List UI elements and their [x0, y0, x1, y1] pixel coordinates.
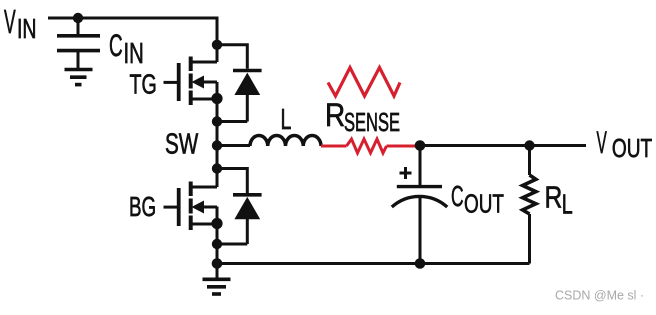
svg-text:IN: IN — [17, 14, 37, 45]
wire bottom rail — [217, 262, 530, 265]
junction TG source — [211, 93, 222, 104]
transistor Q2 BG (N-MOSFET) — [164, 182, 218, 231]
resistor RSENSE (red, in line) — [321, 139, 417, 153]
junction COUT bottom — [415, 258, 426, 269]
resistor RSENSE red zigzag icon — [328, 68, 400, 97]
wire main vertical (BG body to ground) — [216, 207, 219, 264]
resistor RL label — [545, 180, 573, 220]
resistor RSENSE label — [325, 98, 400, 137]
junction RL top — [524, 140, 534, 150]
svg-text:V: V — [597, 125, 608, 161]
diode D1 (TG body diode) — [217, 45, 262, 122]
junction ground node — [212, 258, 223, 269]
svg-text:L: L — [562, 189, 573, 220]
wire main vertical branch (VIN corner to TG drain) — [216, 18, 218, 62]
svg-text:IN: IN — [124, 38, 144, 70]
wire VIN top rail — [48, 17, 217, 20]
svg-text:OUT: OUT — [464, 188, 504, 218]
wire main vertical (TG body to BG drain) — [216, 82, 219, 187]
wire output rail — [417, 144, 586, 147]
svg-text:SENSE: SENSE — [344, 107, 400, 137]
svg-text:BG: BG — [129, 191, 156, 221]
svg-text:CSDN @Me sl ·: CSDN @Me sl · — [555, 289, 644, 303]
svg-text:R: R — [325, 98, 345, 133]
ground (CIN) — [65, 70, 93, 85]
node VIN label — [4, 3, 37, 45]
node VOUT label — [597, 125, 653, 163]
capacitor CIN — [57, 18, 100, 68]
capacitor CIN value label — [109, 29, 144, 70]
junction TG drain / D1 cathode — [212, 40, 222, 50]
svg-text:R: R — [545, 180, 563, 214]
svg-text:V: V — [4, 3, 16, 40]
diode D2 (BG body diode) — [217, 169, 262, 245]
capacitor COUT (polarized) — [392, 146, 447, 264]
ground (main) — [203, 264, 231, 295]
svg-text:TG: TG — [130, 69, 157, 100]
wire SW to inductor — [217, 144, 250, 147]
junction BG source — [211, 218, 222, 229]
inductor L — [250, 136, 321, 147]
svg-text:C: C — [451, 181, 464, 214]
junction COUT top — [415, 140, 426, 151]
svg-text:C: C — [109, 29, 123, 63]
transistor Q1 TG (N-MOSFET) — [164, 57, 218, 106]
junction BG drain / D2 cathode — [212, 163, 222, 173]
resistor RL — [523, 146, 536, 264]
junction D2 anode — [212, 239, 222, 249]
svg-text:OUT: OUT — [612, 133, 652, 163]
capacitor COUT label — [451, 181, 504, 219]
svg-text:L: L — [281, 104, 292, 136]
svg-text:SW: SW — [165, 130, 199, 161]
junction node VIN/CIN — [73, 13, 83, 23]
junction D1 anode / SW branch — [212, 116, 222, 126]
junction SW node — [212, 140, 222, 150]
